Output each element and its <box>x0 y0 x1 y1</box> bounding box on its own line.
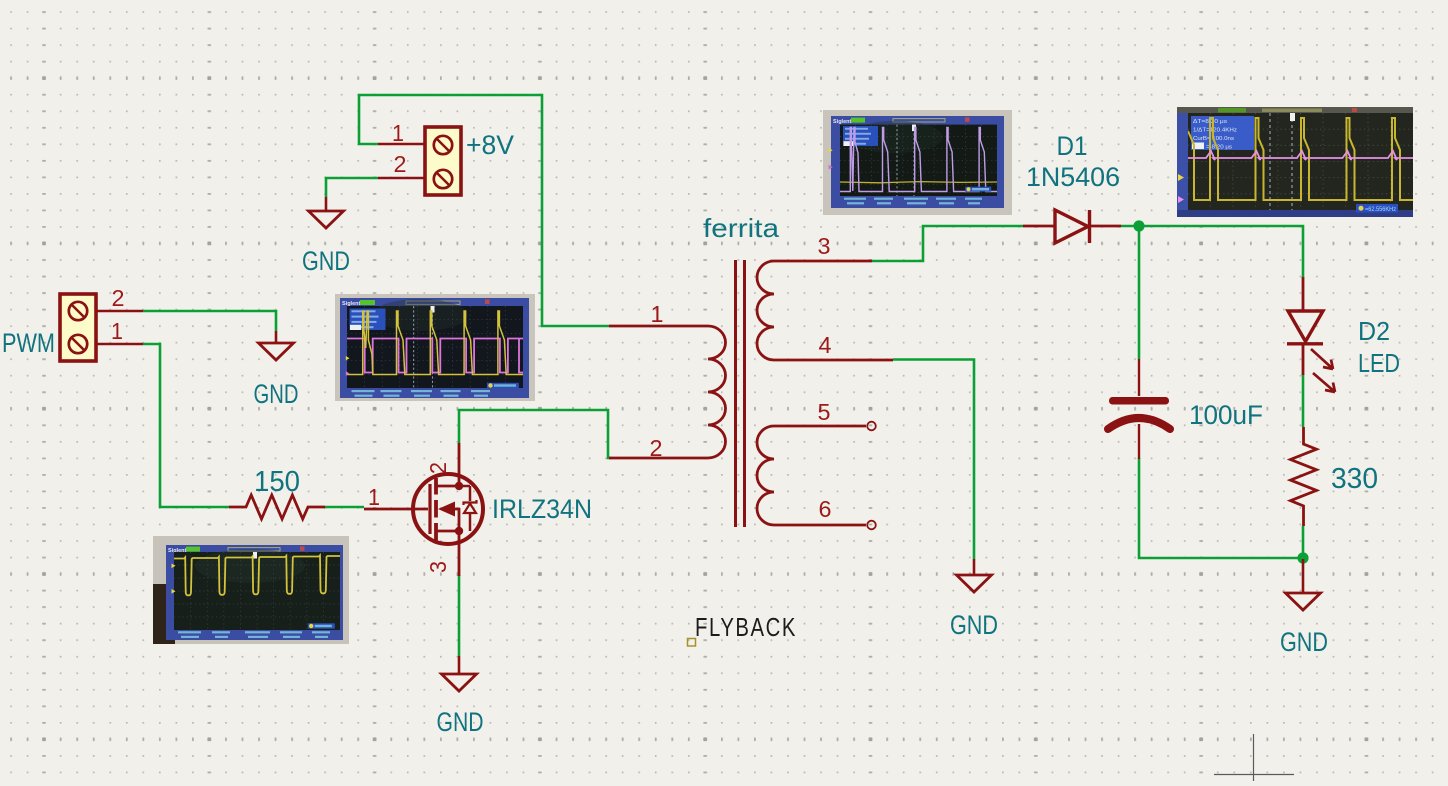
ground symbol below output node <box>1302 559 1305 593</box>
svg-text:GND: GND <box>950 610 998 640</box>
wire PWM pin1 to R1 <box>143 344 229 507</box>
pin anode of D1 <box>1023 225 1055 228</box>
wire transformer pin 3 to D1 anode <box>872 226 1023 261</box>
svg-text:2: 2 <box>112 285 125 311</box>
resistor R2 330 vertical <box>1291 427 1317 526</box>
pin 3 (source) of Q1 <box>458 544 461 576</box>
junction bottom output node <box>1297 552 1308 563</box>
resistor R1 150 horizontal <box>229 495 325 519</box>
wire LED cathode to R2 <box>1302 374 1305 427</box>
oscilloscope photo 1 (gate/drain waveforms, mid-left) <box>335 294 542 401</box>
wire Q1 drain to transformer pin 2 <box>459 410 612 458</box>
transformer secondary winding pins 3-4 <box>757 261 893 360</box>
diode D1 1N5406 <box>1055 210 1090 243</box>
svg-text:2: 2 <box>394 151 407 177</box>
svg-text:1: 1 <box>111 318 123 344</box>
ground symbol below J2 <box>325 197 328 211</box>
transformer auxiliary winding pins 5-6 <box>757 426 866 525</box>
unconnected pin marker pin 5 <box>867 422 876 431</box>
svg-text:1/ΔT=120.4KHz: 1/ΔT=120.4KHz <box>1193 127 1237 133</box>
svg-text:D2: D2 <box>1358 316 1390 346</box>
wire transformer pin 4 to GND <box>893 360 974 560</box>
svg-text:150: 150 <box>254 466 300 498</box>
svg-text:GND: GND <box>437 707 484 737</box>
svg-text:100uF: 100uF <box>1189 400 1263 430</box>
pin cathode of D2 <box>1302 344 1305 375</box>
text anchor marker square <box>688 639 696 647</box>
svg-text:1N5406: 1N5406 <box>1026 162 1120 192</box>
svg-text:PWM: PWM <box>2 328 55 358</box>
capacitor C1 100uF polarized <box>1108 397 1170 429</box>
svg-text:3: 3 <box>818 233 831 259</box>
svg-text:4: 4 <box>819 332 832 358</box>
pin 2 of J2 <box>378 177 425 180</box>
pin anode of D2 <box>1302 277 1305 311</box>
transformer primary winding pins 1-2 <box>609 326 726 458</box>
svg-text:2: 2 <box>425 462 451 474</box>
svg-text:Siglent: Siglent <box>833 119 852 125</box>
svg-text:+8V: +8V <box>466 130 514 160</box>
pin 1 of J1 <box>96 343 143 346</box>
svg-text:D1: D1 <box>1057 131 1088 161</box>
svg-text:=62.556KHz: =62.556KHz <box>1365 206 1396 213</box>
transformer T1 core lines <box>734 260 737 527</box>
pin 2 (drain) of Q1 <box>458 443 461 475</box>
LED D2 <box>1287 311 1335 392</box>
wire node OUT down to C1 <box>1138 225 1141 359</box>
wire Q1 source to GND <box>458 575 461 656</box>
svg-text:3: 3 <box>425 561 451 573</box>
transistor Q1 IRLZ34N N-MOSFET <box>413 474 483 544</box>
wire +8V net: pin1 of J2 up over to transformer pin 1 <box>359 95 609 326</box>
svg-text:ferrita: ferrita <box>703 213 780 243</box>
connector J2 screw terminal +8V <box>425 127 461 195</box>
wire J2 pin2 to GND <box>326 178 378 197</box>
svg-text:LED: LED <box>1358 348 1400 378</box>
junction node OUT at D1 cathode <box>1133 220 1144 231</box>
svg-text:GND: GND <box>302 246 350 276</box>
pin 1 (gate) of Q1 <box>364 508 428 511</box>
svg-text:GND: GND <box>1280 627 1328 657</box>
ground symbol below transformer pin 4 <box>973 559 976 575</box>
oscilloscope photo 4 (output ripple, top-right) <box>1177 107 1413 217</box>
wire PWM pin2 to GND <box>143 311 276 331</box>
svg-text:GND: GND <box>254 379 299 409</box>
oscilloscope photo 2 (PWM input, bottom-left) <box>153 536 349 644</box>
svg-text:FLYBACK: FLYBACK <box>695 612 797 642</box>
ground symbol right of J1 <box>275 331 278 343</box>
pin + of C1 <box>1138 359 1140 396</box>
unconnected pin marker pin 6 <box>867 521 876 530</box>
pin - of C1 <box>1138 424 1140 459</box>
wire R1 to Q1 gate <box>325 506 364 509</box>
ground symbol below Q1 <box>458 656 461 674</box>
svg-text:IRLZ34N: IRLZ34N <box>492 494 592 524</box>
svg-text:6: 6 <box>819 496 832 522</box>
wire D1 cathode to node OUT and LED branch <box>1121 226 1303 277</box>
wire R2 bottom to bottom node and GND <box>1302 526 1305 559</box>
svg-text:1: 1 <box>651 301 664 327</box>
svg-text:2: 2 <box>650 435 663 461</box>
svg-text:1: 1 <box>392 120 404 146</box>
pin 2 of J1 <box>96 310 143 313</box>
wire C1 bottom to bottom node <box>1139 458 1303 558</box>
connector J1 screw terminal PWM <box>60 294 96 361</box>
pin cathode of D1 <box>1089 225 1121 228</box>
sheet border corner lines <box>1214 734 1294 781</box>
svg-text:330: 330 <box>1331 463 1378 495</box>
pin 1 of J2 <box>378 143 425 146</box>
svg-text:1: 1 <box>368 484 380 510</box>
oscilloscope photo 3 (secondary voltage, top-middle) <box>823 110 1018 215</box>
svg-text:5: 5 <box>818 399 831 425</box>
